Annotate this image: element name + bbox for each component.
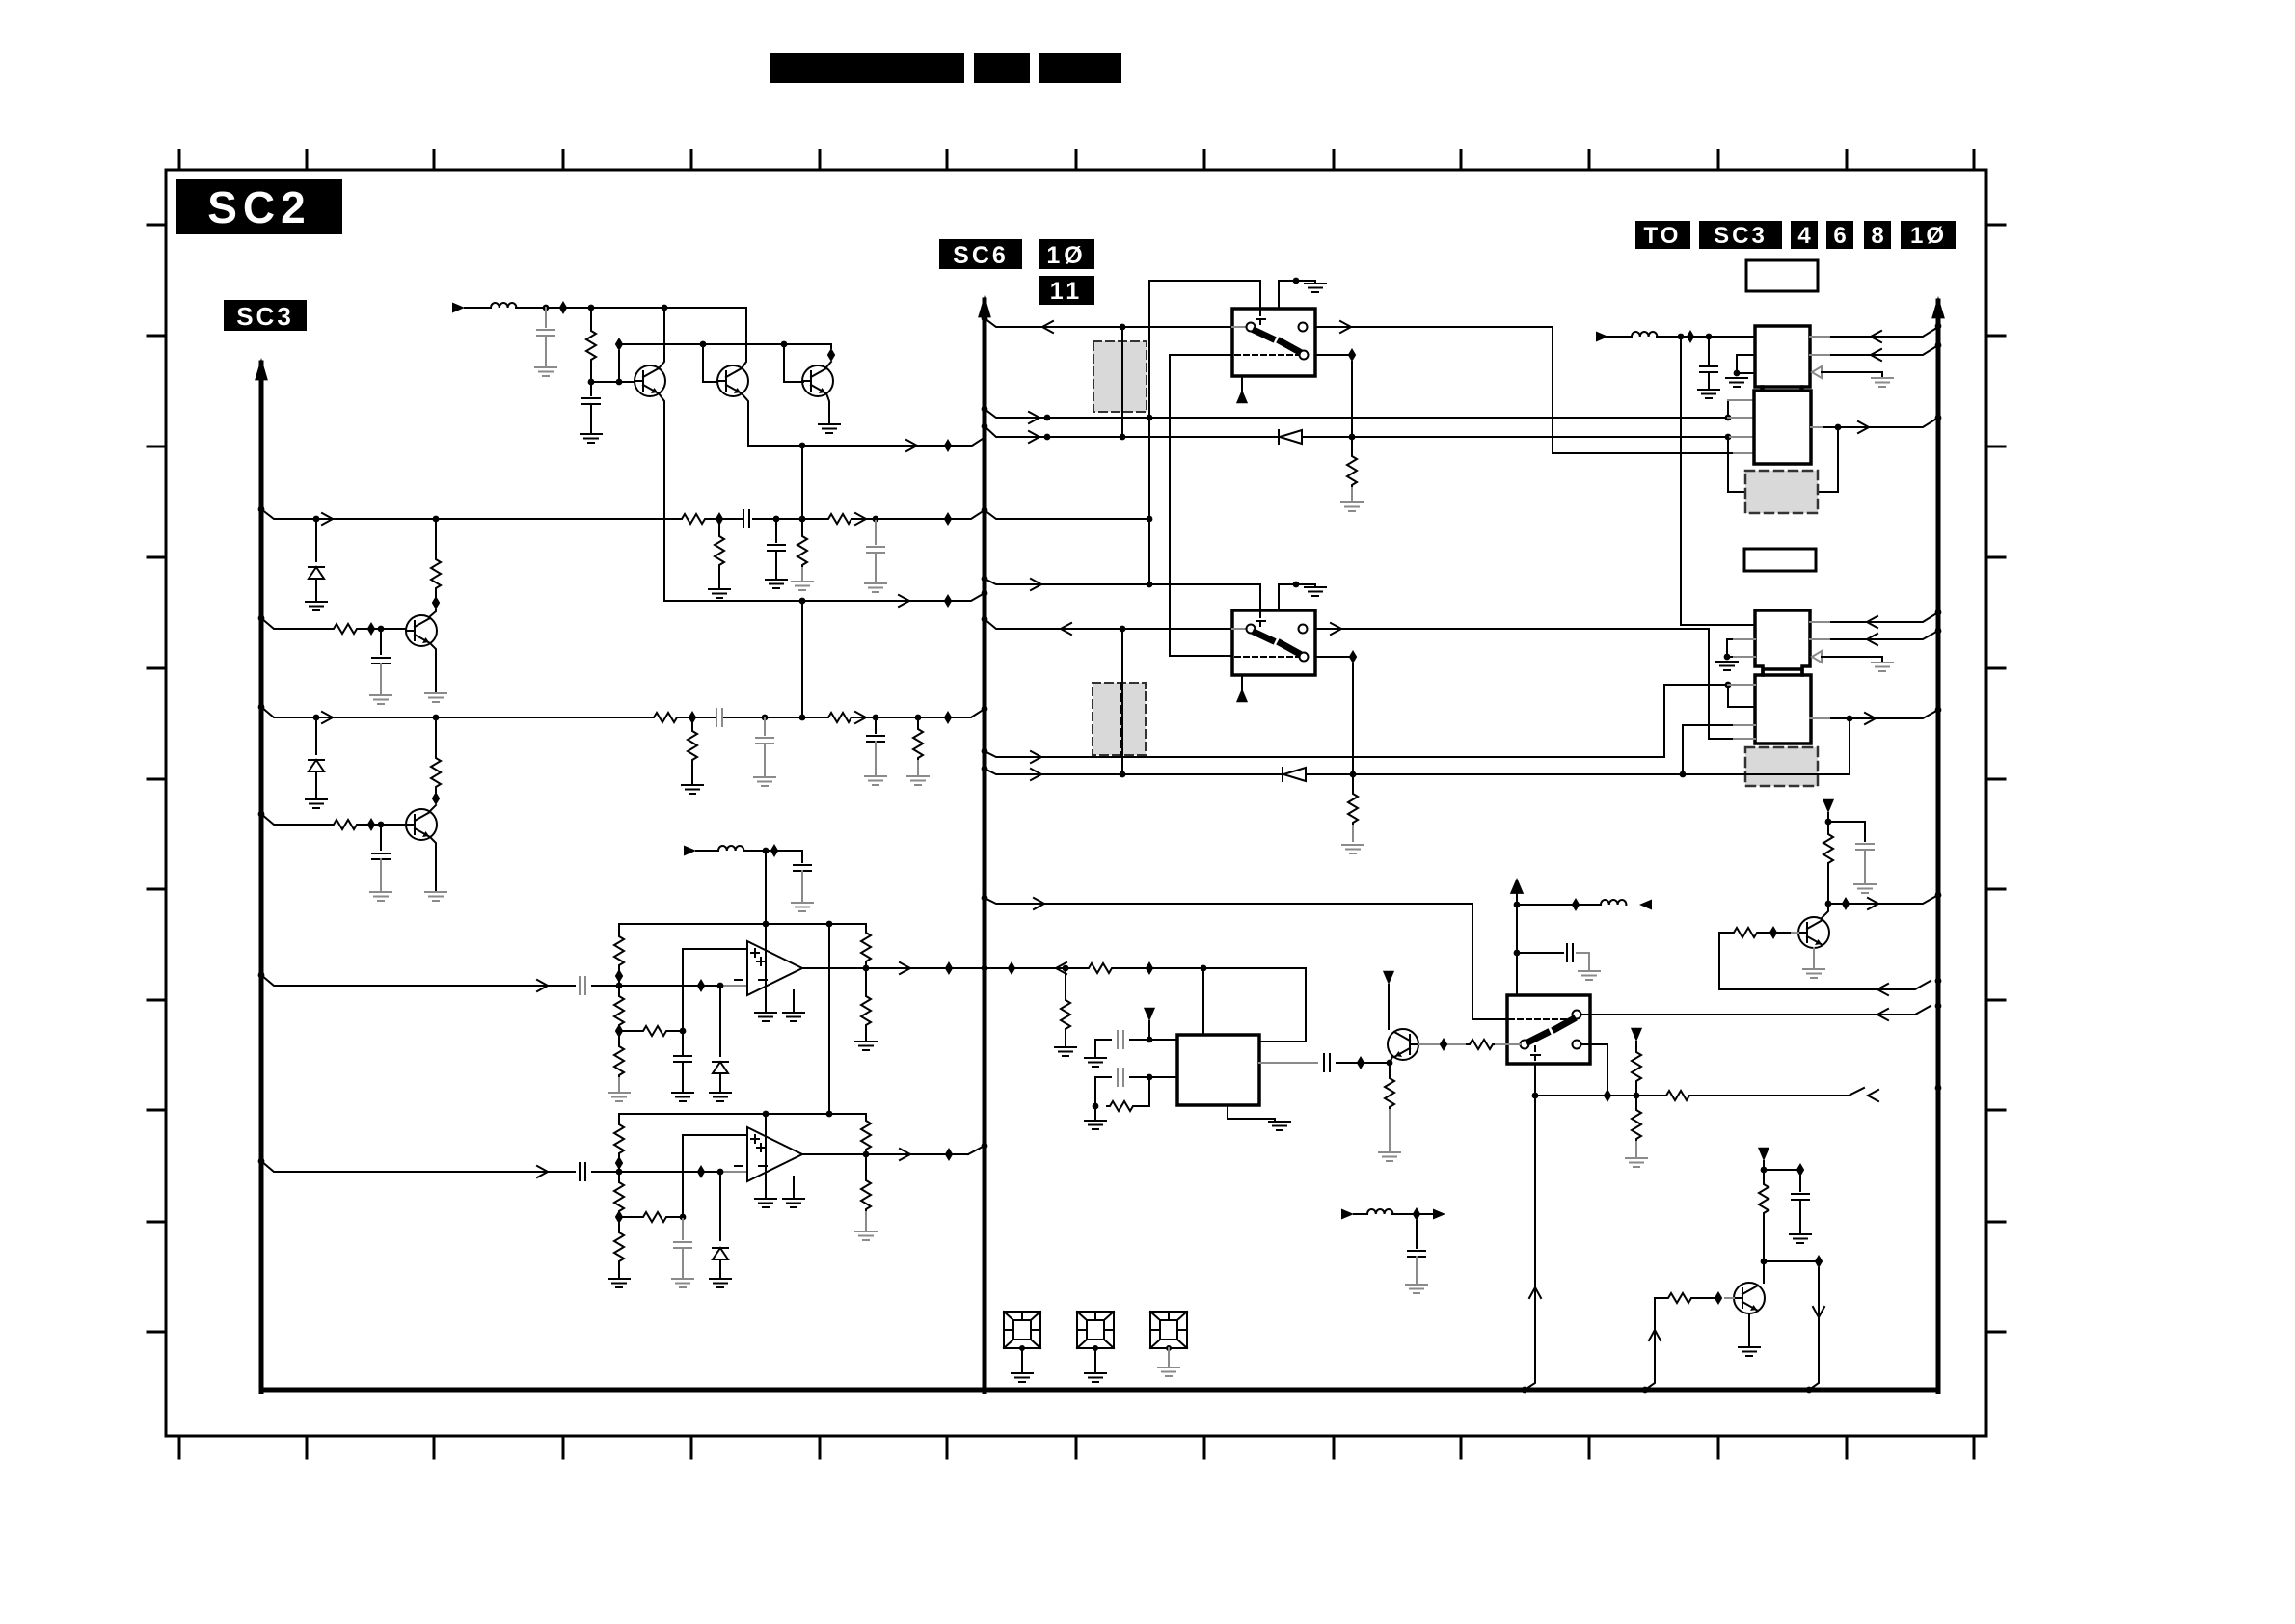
resistor R15 bbox=[1352, 774, 1354, 791]
ground SW2 bbox=[1305, 587, 1326, 596]
arrow y339 left bbox=[1042, 321, 1053, 333]
node rail2 x794 bbox=[763, 1111, 769, 1118]
wire C21 to node bbox=[592, 985, 619, 987]
wire supply Q6 bbox=[1827, 813, 1829, 831]
node W1 R tap bbox=[433, 516, 440, 523]
junction diamond Q6 coll bbox=[1842, 897, 1849, 910]
resistor R24 bbox=[1759, 1181, 1768, 1216]
arrow output2 bbox=[900, 1149, 910, 1160]
node rail y988 bbox=[1514, 950, 1521, 957]
label 11 bbox=[1039, 276, 1094, 305]
ground R13 bbox=[907, 776, 929, 785]
label TO bbox=[1635, 221, 1690, 249]
wire x1213 control bbox=[1170, 355, 1232, 656]
SW2 bottom arrow bbox=[1236, 689, 1248, 702]
junction diamond y623 bbox=[944, 594, 952, 608]
node bus y1043 bbox=[1935, 1003, 1942, 1010]
resistor R3 bbox=[431, 755, 441, 790]
SW1 lever 2 bbox=[1281, 341, 1298, 351]
wire base loop to rail bbox=[1645, 1298, 1665, 1390]
arrow W3 bbox=[322, 712, 333, 723]
SW2 lower pin row bbox=[1315, 656, 1349, 658]
resistor R27 down bbox=[618, 986, 620, 993]
supply rail arrow SW3 bbox=[1510, 878, 1524, 894]
IC3 left pin loop bbox=[1727, 639, 1734, 657]
ground X2 bbox=[1085, 1373, 1106, 1382]
wire WB y453 diode line bbox=[985, 426, 1279, 437]
wire WA pin pair bbox=[1727, 400, 1729, 418]
wire Q4 emitter bbox=[430, 643, 436, 691]
opamp supply arrow bbox=[684, 846, 696, 856]
node bus y635 bbox=[1935, 609, 1942, 616]
node output1 bbox=[863, 965, 870, 972]
wire W3 to bus bbox=[854, 709, 985, 717]
right bus bbox=[1936, 301, 1941, 1392]
ground U1 a bbox=[755, 1013, 776, 1021]
supply arrow Q6 bbox=[1822, 799, 1834, 813]
wire R21 gnd bbox=[1094, 1106, 1096, 1119]
stub SW2 left pin bbox=[1232, 628, 1246, 630]
node IC5 pin2 bbox=[1147, 1074, 1153, 1081]
wire pin1 bbox=[1130, 1039, 1177, 1041]
capacitor C6 inline W1 bbox=[743, 510, 749, 528]
capacitor C5 bbox=[590, 382, 592, 395]
wire Q3 emitter bbox=[826, 393, 829, 422]
label 6 bbox=[1826, 221, 1853, 249]
node y803 x1403 bbox=[1350, 771, 1357, 778]
junction diamond y1102 bbox=[1357, 1056, 1364, 1069]
central bus bbox=[983, 300, 987, 1392]
wire W1 mid RC section bbox=[708, 518, 825, 520]
arrow y1004 right bbox=[1056, 962, 1066, 974]
ground IC1 pin bbox=[1726, 378, 1747, 387]
ground R11 bbox=[682, 785, 703, 794]
junction diamond x1402 bbox=[1348, 348, 1356, 362]
wire x1192 long bbox=[1148, 281, 1150, 584]
wire x1164 through G2 bbox=[1121, 629, 1123, 774]
SW1 top control wire bbox=[1149, 281, 1260, 309]
IC5 block bbox=[1177, 1035, 1259, 1105]
inductor L3 bbox=[1601, 900, 1626, 905]
central bus arrowhead bbox=[978, 295, 991, 317]
wire Q2 collector bbox=[742, 308, 746, 368]
ground D6 bbox=[710, 1279, 731, 1287]
opamp U1 minus mark bbox=[735, 979, 742, 981]
arrow filled right L4 bbox=[1433, 1209, 1445, 1220]
SW1 bottom arrow bbox=[1236, 390, 1248, 403]
arrow IC1 y349 bbox=[1871, 331, 1881, 342]
node C11 tap bbox=[873, 715, 879, 721]
arrow SW2 out bbox=[1331, 623, 1341, 635]
ground R29 bbox=[608, 1093, 630, 1101]
wire -input bbox=[619, 985, 724, 987]
wire bus to IC4 y785 bbox=[985, 685, 1734, 757]
svg-text:8: 8 bbox=[1871, 223, 1883, 249]
node IC4 pin710 bbox=[1725, 682, 1732, 689]
node input1 bbox=[616, 983, 623, 989]
resistor R10 on W3 bbox=[651, 713, 680, 722]
SW3 pin circle topright bbox=[1573, 1011, 1581, 1019]
arrow y462 bbox=[906, 440, 917, 451]
arrow y1136 bbox=[1868, 1090, 1878, 1101]
redaction bar 2 bbox=[975, 54, 1029, 82]
node W3 x832 bbox=[799, 715, 806, 721]
ground IC3 pin bbox=[1716, 662, 1738, 670]
ground C13 bbox=[1854, 884, 1876, 893]
stub Q7 base bbox=[1725, 1297, 1734, 1299]
wire base loop bbox=[1719, 933, 1930, 989]
wire emitter line y462 bbox=[748, 437, 985, 446]
resistor R22 bbox=[1385, 1075, 1394, 1110]
wire x832 y623 to W3 bbox=[801, 601, 803, 717]
resistor R16 bbox=[1823, 831, 1833, 866]
gray shield box G2 bbox=[1093, 683, 1146, 755]
junction diamond Q8 base bbox=[1440, 1038, 1447, 1051]
wire output2 bbox=[802, 1153, 968, 1155]
IC3 ref pin arrow bbox=[1812, 651, 1822, 663]
wire X3 gnd bbox=[1168, 1348, 1170, 1366]
node y1136 x1592 bbox=[1532, 1093, 1539, 1099]
resistor R23 bbox=[1467, 1040, 1496, 1049]
wire x1403 down bbox=[1352, 663, 1354, 774]
wire rail branch cap bbox=[1517, 952, 1563, 954]
stub WC pin bbox=[1734, 452, 1754, 454]
wire coll node right bbox=[1764, 1260, 1815, 1262]
node WB x1164 bbox=[1120, 434, 1126, 441]
resistor R36 right bbox=[619, 1216, 640, 1218]
SW2 dashed row bbox=[1235, 656, 1299, 658]
wire R2 to base bbox=[360, 628, 406, 630]
left tick marks bbox=[148, 225, 166, 1332]
wire bus to SW1 left pin y339 bbox=[985, 318, 1232, 327]
node W1 on bus bbox=[982, 507, 988, 514]
node Q6 collector bbox=[1825, 901, 1832, 907]
wire L4 bbox=[1392, 1213, 1434, 1215]
wire L1 to corner bbox=[516, 307, 746, 309]
node R5 bbox=[588, 305, 595, 311]
wire WB diode to IC2 bbox=[1302, 436, 1728, 438]
wire output1 bbox=[802, 967, 1149, 969]
ground C19 bbox=[1406, 1285, 1427, 1293]
ground C8 bbox=[865, 583, 886, 592]
ground R14 bbox=[1341, 502, 1363, 511]
node bus y928 bbox=[1935, 892, 1942, 899]
capacitor C8 bbox=[875, 519, 877, 544]
arrow y803 bbox=[1031, 769, 1041, 780]
ground C11 bbox=[865, 776, 886, 785]
wire IC5 out1 to y1004 bbox=[1259, 968, 1306, 1042]
resistor R34 up bbox=[618, 1114, 620, 1122]
wire Q2 base drop bbox=[703, 344, 717, 382]
resistor R21 bbox=[1107, 1101, 1136, 1111]
supply arrow IC5 bbox=[1144, 1008, 1155, 1021]
node y606 x1192 bbox=[1147, 582, 1153, 588]
junction diamond rail bbox=[1572, 898, 1579, 911]
node C10 tap bbox=[762, 715, 769, 721]
resistor R1 bbox=[431, 556, 441, 591]
node Q3 base drop bbox=[781, 341, 788, 348]
capacitor C14 bbox=[1567, 944, 1573, 961]
node bus y1004 bbox=[982, 965, 988, 972]
label 10 bbox=[1039, 239, 1094, 269]
ground C4 bbox=[535, 367, 556, 376]
resistor R2 bbox=[331, 624, 360, 634]
node W1 bus bbox=[258, 506, 265, 513]
top input arrow bbox=[452, 303, 465, 313]
ground C24 bbox=[672, 1279, 693, 1287]
node supply Q7 bbox=[1761, 1167, 1768, 1174]
ground Q5 emitter bbox=[425, 892, 446, 901]
node bus y736 bbox=[1935, 707, 1942, 714]
svg-text:4: 4 bbox=[1797, 223, 1811, 249]
capacitor C2 bbox=[380, 629, 382, 654]
junction diamond y1004 right bbox=[1008, 961, 1015, 975]
white IC pin stubs IC2 right bbox=[1811, 426, 1822, 428]
resistor R17 bbox=[1731, 928, 1760, 937]
capacitor C13 bbox=[1856, 844, 1874, 850]
capacitor C21 bbox=[580, 977, 585, 994]
SW1 bottom pin bbox=[1241, 376, 1243, 391]
ground R21 bbox=[1085, 1121, 1106, 1129]
wire top input bbox=[465, 307, 491, 309]
node y652 x1164 bbox=[1120, 626, 1126, 633]
supply arrow Q7 bbox=[1758, 1148, 1769, 1161]
resistor R29 down bbox=[618, 1031, 620, 1043]
capacitor C10 bbox=[764, 717, 766, 735]
node WB bbox=[1044, 434, 1051, 441]
node long vertical bbox=[1678, 334, 1685, 340]
crystal X2 bbox=[1077, 1312, 1114, 1351]
wire x1886 to rail bbox=[1809, 1268, 1819, 1390]
arrow IC4 out bbox=[1865, 713, 1876, 724]
arrow y606 bbox=[1031, 579, 1041, 590]
ground R20 bbox=[1626, 1158, 1647, 1167]
zener D1 bbox=[315, 519, 317, 561]
node WA bbox=[1044, 415, 1051, 421]
wire bus to SW2 control y606 bbox=[985, 579, 1260, 584]
resistor R14 bbox=[1351, 437, 1353, 453]
junction diamond supply bbox=[770, 844, 778, 857]
capacitor C15 bbox=[1118, 1031, 1123, 1048]
ground R7 bbox=[709, 589, 730, 598]
diode D6 bbox=[719, 1172, 721, 1240]
wire SW3 lowright out bbox=[1582, 1044, 1607, 1096]
SW3 lever 2 bbox=[1555, 1019, 1573, 1029]
wire SW1 out y339 bbox=[1315, 326, 1552, 328]
base bus wire y357 bbox=[619, 343, 831, 345]
wire W4 from left bus y855 (Q5 base) bbox=[261, 814, 331, 825]
node C8 tap bbox=[873, 516, 879, 523]
node x708 low bbox=[680, 1214, 687, 1221]
ground SW1 bbox=[1305, 284, 1326, 292]
IC3 block bbox=[1755, 610, 1810, 675]
wire rail branch ind bbox=[1517, 904, 1601, 906]
resistor R35 down bbox=[618, 1172, 620, 1179]
arrow y652 left bbox=[1061, 623, 1071, 635]
node R13 tap bbox=[915, 715, 922, 721]
resistor R4 bbox=[331, 820, 360, 829]
wire supply drop to rail1 bbox=[765, 851, 767, 941]
feedback resistor R30 bbox=[865, 924, 867, 930]
feedback drop x860 bbox=[828, 924, 830, 1114]
ground C3 bbox=[370, 892, 391, 901]
wire +input riser bbox=[683, 949, 747, 1031]
SW2 lever 2 bbox=[1281, 643, 1298, 653]
junction diamond y462 bbox=[944, 439, 952, 452]
node W1 end x1192 bbox=[1147, 516, 1153, 523]
wire W1 right of bus bbox=[985, 510, 1149, 519]
stub SW1 left pin bbox=[1232, 326, 1246, 328]
resistor R9 on W1 bbox=[825, 514, 854, 524]
ground R8 bbox=[792, 582, 813, 590]
SW2 lever 1 bbox=[1255, 633, 1272, 640]
ground D5 bbox=[710, 1093, 731, 1101]
arrow output1 bbox=[900, 962, 910, 974]
junction diamond Q6 base bbox=[1769, 926, 1777, 939]
arrow IC3 y645 bbox=[1867, 616, 1877, 628]
node rail x1706 bbox=[1642, 1387, 1649, 1394]
wire Q5 emitter bbox=[430, 837, 436, 890]
wire bottom feed bbox=[1354, 1213, 1367, 1215]
IC4 pin pair loop bbox=[1728, 685, 1755, 707]
junction diamond -input bbox=[697, 979, 705, 992]
transistor Q7 bbox=[1734, 1283, 1765, 1313]
capacitor C9 inline W3 bbox=[716, 709, 722, 726]
SW3 pin circle lowright bbox=[1573, 1041, 1581, 1049]
ground C2 bbox=[370, 695, 391, 704]
arrow WB bbox=[1029, 431, 1039, 443]
capacitor C3 bbox=[380, 825, 382, 850]
node y1136 x1697 bbox=[1633, 1093, 1640, 1099]
arrow base loop bbox=[1877, 984, 1888, 995]
node WA IC2 bbox=[1725, 415, 1732, 421]
wire opamp2 input from left bus bbox=[261, 1161, 575, 1172]
transistor Q2 bbox=[717, 365, 748, 396]
arrow up SW3 drop bbox=[1529, 1287, 1541, 1298]
wire IC4 out y745 bbox=[1810, 710, 1938, 718]
ground ref bbox=[1872, 378, 1893, 387]
supply rail SW3 bbox=[1516, 883, 1518, 995]
ground Q4 emitter bbox=[425, 693, 446, 702]
label 4 bbox=[1791, 221, 1818, 249]
ground Q7 emitter bbox=[1739, 1347, 1760, 1356]
wire Q1 collector bbox=[659, 308, 664, 368]
wire W2 from left bus y652 (Q4 base) bbox=[261, 618, 331, 629]
wire ref to ground bbox=[1822, 372, 1882, 376]
long vertical feed to IC3 bbox=[1681, 337, 1755, 625]
wire C16 hook down bbox=[1095, 1077, 1111, 1106]
node Q7 collector bbox=[1761, 1259, 1768, 1265]
node y803 x1745 bbox=[1680, 771, 1687, 778]
node x1192 y433 bbox=[1147, 415, 1153, 421]
wire Q8 emitter drop bbox=[1390, 1057, 1392, 1075]
wire IC3 out y645 bbox=[1810, 612, 1938, 622]
switch box SW3 bbox=[1507, 995, 1590, 1064]
svg-text:6: 6 bbox=[1833, 223, 1846, 249]
node C7 tap bbox=[773, 516, 780, 523]
label SC3 (to-row) bbox=[1699, 221, 1782, 249]
capacitor C11 bbox=[875, 717, 877, 733]
opamp U2 bbox=[747, 1127, 802, 1181]
opamp U1 power pins bbox=[765, 941, 767, 1011]
junction diamond y1136 bbox=[1604, 1089, 1611, 1102]
node bus y433 bbox=[1935, 415, 1942, 421]
base bus riser bbox=[618, 351, 620, 382]
wire W1 from left bus y538 bbox=[261, 509, 679, 519]
wire R23 to SW3 bbox=[1496, 1043, 1520, 1045]
wire bus to SW3 control y937 bbox=[985, 898, 1507, 1019]
junction diamond out2 bbox=[945, 1148, 953, 1161]
junction diamond base bus bbox=[615, 338, 623, 351]
capacitor C19 bbox=[1408, 1251, 1425, 1257]
resistor R31 out1 gnd bbox=[865, 968, 867, 993]
capacitor C7 bbox=[775, 519, 777, 542]
label SC2 bbox=[176, 179, 342, 234]
wire +input riser U2 bbox=[683, 1135, 747, 1217]
junction diamond R26 bbox=[615, 969, 623, 983]
resistor R33 x1105 bbox=[1065, 968, 1066, 997]
wire supply IC5 bbox=[1148, 1021, 1150, 1040]
SW1 lever 1 bbox=[1255, 331, 1272, 338]
wire C15 gnd hook bbox=[1095, 1040, 1111, 1056]
junction diamond W3 bbox=[688, 711, 696, 724]
node x1402 y453 bbox=[1349, 434, 1356, 441]
arrow Q6 coll bbox=[1868, 898, 1878, 909]
top tick marks bbox=[179, 150, 1974, 170]
diode D3 bbox=[1279, 430, 1302, 444]
junction diamond base Q5 bbox=[367, 818, 375, 831]
node base Q5 bbox=[378, 822, 385, 828]
SW3 dashed control col bbox=[1534, 1046, 1536, 1064]
wire supply Q7 bbox=[1763, 1161, 1765, 1181]
node supply Q6 bbox=[1825, 819, 1832, 826]
node y623 x832 bbox=[799, 598, 806, 605]
node C4 bbox=[543, 305, 550, 311]
capacitor C20 bbox=[794, 865, 811, 871]
wire supply to C18 bbox=[1764, 1170, 1800, 1191]
transistor Q4 bbox=[406, 615, 437, 646]
left bus arrowhead bbox=[255, 358, 268, 380]
wire IC5 out2 bbox=[1259, 1062, 1317, 1064]
junction diamond x1403 bbox=[1349, 650, 1357, 663]
node C12 tap bbox=[1706, 334, 1713, 340]
capacitor C24 bbox=[682, 1217, 684, 1239]
wire Q8 collector bbox=[1388, 985, 1390, 1029]
wire diode to IC4 loop bbox=[1306, 718, 1849, 774]
SW2 pin circle lower bbox=[1300, 653, 1309, 662]
wire y623 link bbox=[664, 519, 985, 601]
feedback rail2 y1155 bbox=[619, 1113, 866, 1115]
ground C15 bbox=[1085, 1058, 1106, 1067]
label SC3 (left) bbox=[224, 300, 307, 331]
wire SW3 topright out bbox=[1582, 1006, 1930, 1015]
node bus y654 bbox=[1935, 628, 1942, 635]
crystal X1 bbox=[1004, 1312, 1040, 1351]
bottom tick marks bbox=[179, 1436, 1974, 1458]
SW3 bottom control drop bbox=[1525, 1064, 1535, 1390]
SW2 pin circle left bbox=[1247, 625, 1255, 634]
node rail2 x860 bbox=[826, 1111, 833, 1118]
wire x832 down to W1 bbox=[801, 446, 803, 519]
arrow filled left L3 bbox=[1639, 900, 1652, 910]
inductor L4 bbox=[1367, 1209, 1392, 1214]
capacitor C23 bbox=[580, 1163, 585, 1180]
right tick marks bbox=[1986, 225, 2005, 1332]
resistor R6 on W1 bbox=[679, 514, 708, 524]
resistor R20 bbox=[1635, 1096, 1637, 1107]
node base Q4 bbox=[378, 626, 385, 633]
resistor R28 right bbox=[619, 1030, 640, 1032]
